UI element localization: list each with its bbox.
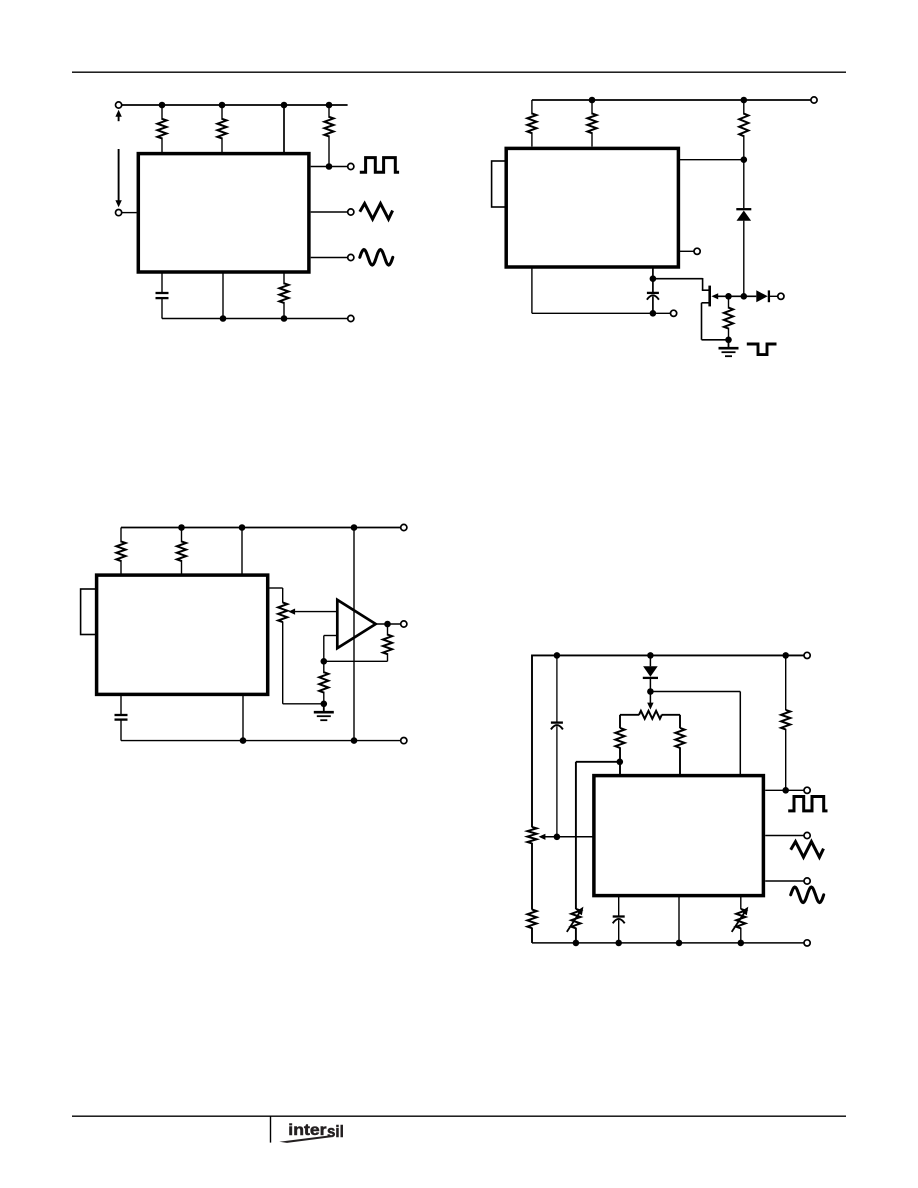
wire U1 sine output pin <box>311 257 348 259</box>
wire inverting input <box>324 636 338 662</box>
junction diode node <box>741 156 748 163</box>
junction bottom rail at pin wire <box>220 315 227 322</box>
junction bottom rail at U3 pin <box>240 737 247 744</box>
junction square output node <box>326 163 333 170</box>
wire R19 to bottom rail <box>575 928 577 943</box>
junction bottom rail at R21 <box>738 940 745 947</box>
sine wave symbol <box>360 250 393 266</box>
op-amp IC U1 (function generator) <box>138 154 309 272</box>
junction bottom rail at R4 <box>281 315 288 322</box>
resistor R2 <box>217 105 226 152</box>
wire U1 square output pin <box>311 166 348 168</box>
variable resistor R19 <box>567 907 584 932</box>
resistor R17 <box>615 728 624 748</box>
resistor R3 <box>324 105 333 165</box>
wire D3 cathode to wiper node <box>649 679 651 692</box>
op-amp IC U2 (function generator) <box>506 148 678 267</box>
FM sweep input terminal <box>116 210 122 216</box>
transistor Q1 channel bar <box>708 286 711 307</box>
top rule <box>72 71 846 73</box>
wire rail to U3 top pin <box>241 528 243 575</box>
wire U4 triangle output pin <box>765 835 804 837</box>
triangle wave symbol <box>360 204 393 220</box>
junction inverting node <box>321 658 328 665</box>
arrow FM sweep input <box>115 149 121 207</box>
triangle wave symbol circuit 4 <box>791 842 824 858</box>
feedback resistor R12 <box>383 624 392 661</box>
wire V+ rail circuit 2 <box>532 99 811 101</box>
ground circuit 3 <box>314 704 334 720</box>
sine wave symbol circuit 4 <box>791 887 824 903</box>
resistor R6 <box>587 100 596 147</box>
potentiometer R11 <box>278 603 287 623</box>
resistor R20 <box>781 655 790 790</box>
capacitor C2 (polarized) <box>647 279 659 314</box>
junction rail at long wire <box>351 524 358 531</box>
junction D3 node <box>647 688 654 695</box>
junction bottom rail at R19 <box>573 940 580 947</box>
diode D2 (series output diode) <box>756 290 769 302</box>
wire V+ rail circuit 4 <box>532 654 804 656</box>
wire U4 sine output pin <box>765 880 804 882</box>
sine output terminal circuit 4 <box>804 878 810 884</box>
wire U1 bottom pin to rail <box>222 272 224 319</box>
bottom rail terminal circuit 1 <box>348 315 354 321</box>
diode D3 (vertical, cathode down) <box>643 666 658 678</box>
gate of Q1 with arrow <box>711 293 756 299</box>
bottom rail terminal circuit 3 <box>401 738 407 744</box>
wire V+ rail circuit 3 <box>121 527 401 529</box>
junction V+ rail at R6 <box>589 97 596 104</box>
wire D2 to output terminal <box>770 295 778 297</box>
op-amp IC U4 (function generator) <box>594 776 764 896</box>
wire junction to variable resistor R19 <box>576 762 620 909</box>
wire bottom rail to terminal <box>653 312 671 314</box>
wire U4 square output pin <box>765 789 804 791</box>
wire D3 from rail <box>649 655 651 666</box>
square output terminal <box>348 163 354 169</box>
footer divider tick <box>270 1116 272 1142</box>
junction on V+ rail at R3 <box>326 102 333 109</box>
resistor R8 <box>724 296 733 340</box>
wire left branch down <box>531 655 533 828</box>
junction square node circuit 4 <box>782 787 789 794</box>
wiper arrow of R11 <box>288 609 337 615</box>
V+ terminal circuit 3 <box>401 524 407 530</box>
wire bottom rail circuit 4 <box>532 942 804 944</box>
diode D1 (vertical, cathode up) <box>736 209 751 221</box>
junction gate node at R8 <box>725 293 732 300</box>
wire FM input to U1 <box>122 212 137 214</box>
wire R18 to U4 top <box>679 747 681 775</box>
capacitor C5 (polarized) <box>613 896 625 943</box>
junction rail at D3 <box>647 652 654 659</box>
V+ terminal circuit 4 <box>804 652 810 658</box>
wiper arrow of R14 <box>539 834 594 840</box>
junction wiper-C4 node <box>554 834 561 841</box>
junction rail at R10 <box>178 524 185 531</box>
resistor R5 <box>527 100 536 147</box>
wire R11 bottom to ground node <box>283 622 324 704</box>
capacitor C3 <box>115 694 128 740</box>
wire U2 bottom pin to C2 <box>652 267 654 279</box>
variable resistor R21 <box>732 896 749 943</box>
junction source-resistor node <box>725 337 732 344</box>
wiper arrow of R16 <box>647 692 653 710</box>
ground circuit 2 <box>719 340 739 356</box>
resistor R13 <box>319 661 328 704</box>
pulse waveform symbol <box>747 344 777 355</box>
wire bottom rail circuit 3 <box>121 740 401 742</box>
node V+ terminal (circuit 1 supply) <box>116 102 122 108</box>
resistor R4 <box>279 272 288 319</box>
wire D1 anode to gate node <box>743 221 745 297</box>
junction bottom rail at C5 <box>615 940 622 947</box>
junction rail at U3 pin wire <box>239 524 246 531</box>
junction A1 output node <box>384 621 391 628</box>
square wave symbol circuit 4 <box>788 797 827 811</box>
wire R16 right leg <box>679 715 681 728</box>
wire U3 bottom pin to rail <box>242 694 244 740</box>
V+ terminal circuit 2 <box>811 97 817 103</box>
wire R16 left leg <box>619 715 621 728</box>
junction on V+ rail at pin wire <box>281 102 288 109</box>
wire R15 to bottom rail <box>531 928 533 943</box>
strobe box on U3 left <box>81 589 97 635</box>
wire U2 pin to diode node <box>680 159 744 161</box>
intersil logo <box>279 1122 344 1143</box>
resistor R7 <box>739 100 748 160</box>
pulse output terminal <box>778 293 784 299</box>
wire feedback to inverting input <box>324 660 388 662</box>
junction gate node at D1 wire <box>741 293 748 300</box>
wire U3 pin to pot R11 <box>270 588 283 603</box>
potentiometer R14 <box>527 827 536 843</box>
junction V+ rail at R7 <box>741 97 748 104</box>
junction bottom rail at C2 <box>650 310 657 317</box>
wire bottom rail circuit 1 <box>162 317 348 320</box>
triangle output terminal <box>348 209 354 215</box>
junction C2 top node <box>650 275 657 282</box>
resistor R18 <box>675 728 684 748</box>
terminal U2 right pin <box>694 248 700 254</box>
arrow (current into supply terminal) <box>115 110 121 122</box>
svg-text:sil: sil <box>327 1122 344 1141</box>
wire D3 node to U4 top pin <box>650 692 740 776</box>
wire A1 output <box>376 623 401 625</box>
wire V+ rail circuit 1 <box>122 104 348 106</box>
capacitor C4 (timing, polarized) <box>551 655 563 836</box>
wire drain of Q1 <box>653 278 710 290</box>
wire U2 bottom-left to bottom rail <box>532 267 653 313</box>
junction rail at R20 <box>782 652 789 659</box>
junction ground node circuit 3 <box>321 701 328 708</box>
wire source of Q1 <box>702 303 729 340</box>
resistor R9 <box>116 528 125 575</box>
wire U2 right pin with terminal <box>680 250 694 252</box>
square output terminal circuit 4 <box>804 787 810 793</box>
wire U1 triangle output pin <box>311 211 348 213</box>
wire R17 to junction <box>619 747 621 775</box>
bottom terminal circuit 2 <box>671 310 677 316</box>
potentiometer R16 (horizontal) <box>620 711 680 719</box>
resistor R15 <box>527 910 536 929</box>
triangle output terminal circuit 4 <box>804 832 810 838</box>
junction bottom rail at U4 pin <box>676 940 683 947</box>
junction on V+ rail at R1 <box>159 102 166 109</box>
strobe box on U2 left <box>492 161 507 207</box>
junction left leg node <box>617 759 624 766</box>
sine output terminal <box>348 254 354 260</box>
junction rail at C4 <box>554 652 561 659</box>
junction on V+ rail at R2 <box>219 102 226 109</box>
resistor R1 <box>157 105 166 152</box>
resistor R10 <box>177 528 186 575</box>
wire diode node down <box>743 160 745 208</box>
bottom rail terminal circuit 4 <box>804 940 810 946</box>
capacitor C1 <box>156 272 169 319</box>
op-amp IC U3 (function generator) <box>97 575 268 694</box>
wire rail to bottom rail (right) <box>353 528 355 741</box>
square wave symbol <box>360 158 399 173</box>
op-amp A1 buffer <box>337 600 375 648</box>
wire U4 bottom pin to rail <box>678 896 680 943</box>
buffer output terminal <box>401 621 407 627</box>
junction bottom rail at long wire <box>351 737 358 744</box>
wire rail to U1 top pin <box>283 105 285 152</box>
footer rule <box>72 1115 846 1117</box>
wire R14 to R15 <box>531 843 533 910</box>
